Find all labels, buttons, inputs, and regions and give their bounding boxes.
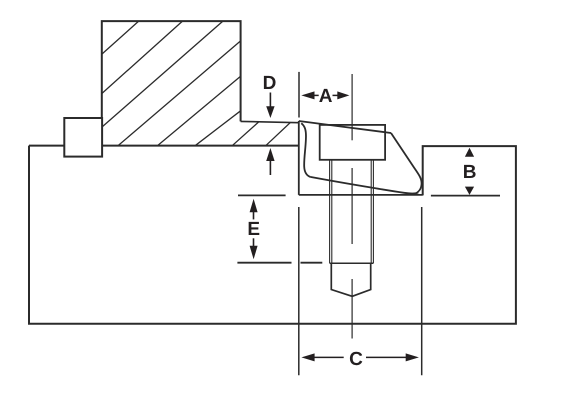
dimension B extension line: [431, 195, 500, 197]
clamp strap top edge: [299, 121, 391, 133]
workpiece flange (wedge) top edge: [241, 121, 299, 122]
bolt thread end line: [330, 262, 374, 264]
bolt thread lines: [330, 160, 374, 263]
bolt head: [320, 125, 385, 160]
locating square block: [64, 118, 102, 157]
svg-text:A: A: [319, 86, 333, 107]
dimension B down arrow: [465, 187, 474, 195]
dimension D up arrow: [269, 160, 271, 175]
hatching of workpiece section: [102, 21, 291, 145]
dimension E upper extension line: [238, 194, 286, 196]
svg-text:C: C: [349, 349, 363, 370]
dimension D down arrow: [269, 93, 271, 109]
dimension C arrows and leaders: [301, 353, 419, 361]
dimension B up arrow: [465, 148, 474, 157]
clamp strap inner S-curve: [301, 123, 310, 177]
workpiece block outline: [102, 21, 241, 145]
svg-text:D: D: [263, 73, 277, 94]
clamp strap left edge: [298, 121, 300, 195]
machine table (base) top edge left: [29, 145, 299, 147]
dimension E up arrow: [250, 199, 258, 213]
clamp strap inner lower edge: [310, 177, 418, 194]
svg-text:B: B: [463, 162, 477, 183]
machine table outline: [29, 146, 516, 324]
dimension A extension line: [298, 72, 300, 118]
dimension A arrows and leaders: [301, 91, 349, 99]
clamp strap bottom edge: [299, 194, 423, 196]
dimension E down arrow: [253, 238, 255, 248]
dimension C extension lines: [298, 207, 300, 375]
bolt center line: [351, 74, 353, 339]
clamp strap nose outer curve: [391, 133, 422, 195]
bolt lower shank and point: [331, 263, 370, 296]
svg-text:E: E: [247, 219, 260, 240]
dimension E lower extension line: [237, 262, 291, 264]
